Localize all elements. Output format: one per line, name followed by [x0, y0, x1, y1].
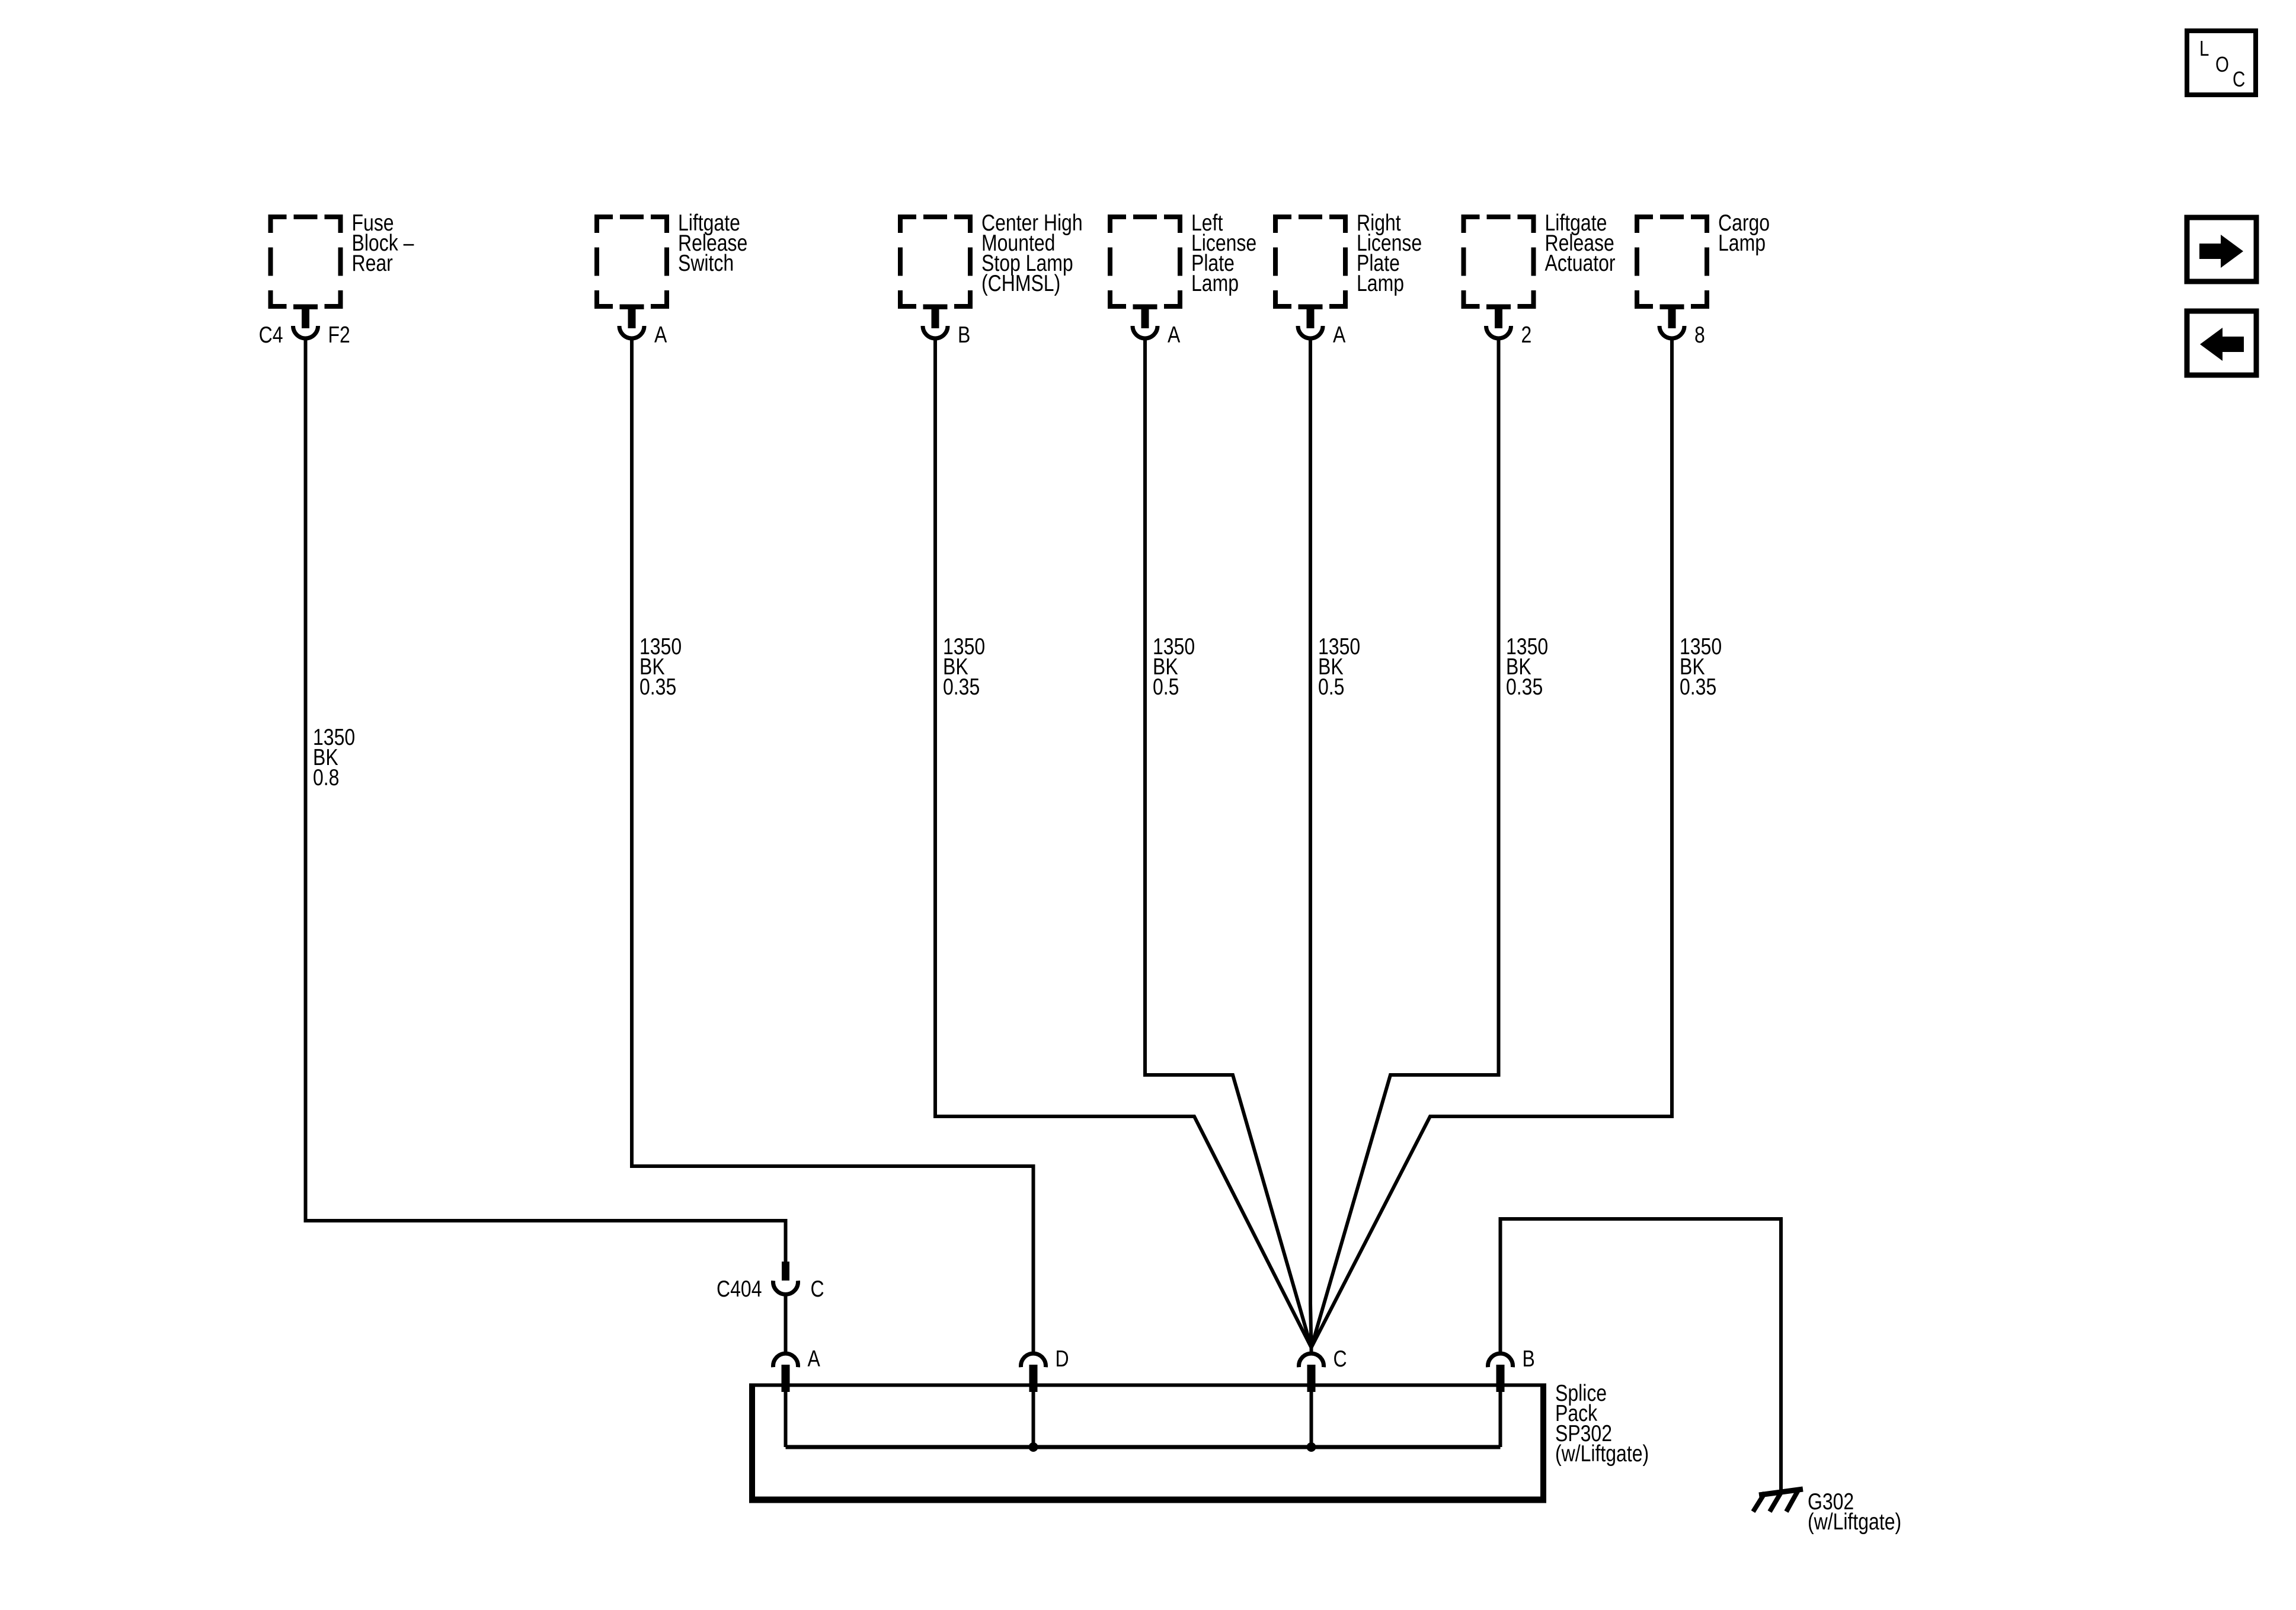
wire label 1350 BK 0.35 — [1506, 633, 1548, 700]
wire label 1350 BK 0.8 — [313, 724, 355, 790]
connector pin B of Center High Mounted Stop Lamp (CHMSL) — [923, 305, 948, 339]
svg-text:0.5: 0.5 — [1318, 674, 1344, 700]
svg-text:Lamp: Lamp — [1718, 230, 1766, 256]
svg-text:0.5: 0.5 — [1153, 674, 1179, 700]
svg-text:0.35: 0.35 — [1506, 674, 1543, 700]
component label: Fuse Block - Rear — [352, 210, 414, 276]
svg-text:(w/Liftgate): (w/Liftgate) — [1555, 1441, 1649, 1467]
svg-text:(CHMSL): (CHMSL) — [981, 270, 1060, 296]
wire: Left License Plate Lamp A to splice pin C (1350 BK 0.5) — [1145, 338, 1312, 1347]
splice pack pin B — [1488, 1353, 1513, 1447]
svg-text:C: C — [2233, 67, 2245, 91]
component box: Fuse Block - Rear — [271, 217, 341, 306]
component label: Left License Plate Lamp — [1191, 210, 1256, 296]
svg-text:A: A — [1333, 322, 1346, 348]
svg-text:D: D — [1056, 1346, 1069, 1372]
svg-text:C404: C404 — [717, 1276, 762, 1302]
component label: Liftgate Release Actuator — [1545, 210, 1616, 276]
connector pin A of Right License Plate Lamp — [1298, 305, 1323, 339]
LOC reference box — [2187, 31, 2256, 95]
splice junction dot at pin C — [1307, 1442, 1316, 1452]
splice junction dot at pin D — [1029, 1442, 1038, 1452]
svg-text:(w/Liftgate): (w/Liftgate) — [1808, 1509, 1901, 1535]
svg-text:0.35: 0.35 — [1680, 674, 1716, 700]
wire label 1350 BK 0.5 — [1153, 633, 1195, 700]
connector pin 8 of Cargo Lamp — [1659, 305, 1684, 339]
left-arrow navigation box — [2187, 311, 2256, 375]
svg-text:B: B — [1523, 1346, 1535, 1372]
svg-text:A: A — [808, 1346, 821, 1372]
svg-text:Switch: Switch — [678, 250, 734, 276]
component label: Right License Plate Lamp — [1357, 210, 1422, 296]
svg-text:8: 8 — [1694, 322, 1705, 348]
splice bus wire inside SP302 — [786, 1445, 1501, 1449]
wire: CHMSL B to splice pin C (1350 BK 0.35) — [935, 338, 1312, 1352]
in-line connector C404 pin C — [773, 1262, 798, 1294]
wire: Liftgate Release Actuator 2 to splice pin C (1350 BK 0.35) — [1312, 338, 1499, 1347]
component label: Center High Mounted Stop Lamp (CHMSL) — [981, 210, 1083, 296]
wire: splice pin B to ground G302 — [1501, 1219, 1782, 1490]
svg-text:C: C — [1334, 1346, 1347, 1372]
component box: Right License Plate Lamp — [1275, 217, 1345, 306]
wire label 1350 BK 0.5 — [1318, 633, 1360, 700]
svg-text:Actuator: Actuator — [1545, 250, 1616, 276]
wire label 1350 BK 0.35 — [943, 633, 985, 700]
component box: Left License Plate Lamp — [1110, 217, 1180, 306]
ground symbol G302 — [1753, 1489, 1803, 1512]
splice pack pin C — [1299, 1353, 1324, 1447]
svg-text:0.35: 0.35 — [943, 674, 980, 700]
wire: Right License Plate Lamp A to splice pin C (1350 BK 0.5) — [1310, 338, 1312, 1347]
component box: Cargo Lamp — [1637, 217, 1707, 306]
component box: Liftgate Release Switch — [597, 217, 667, 306]
component label: Liftgate Release Switch — [678, 210, 747, 276]
wire label 1350 BK 0.35 — [639, 633, 682, 700]
svg-text:A: A — [654, 322, 667, 348]
connector pin 2 of Liftgate Release Actuator — [1486, 305, 1511, 339]
wire: Fuse Block F2 to C404 (1350 BK 0.8) — [306, 338, 786, 1263]
wire: Cargo Lamp 8 to splice pin C (1350 BK 0.35) — [1312, 338, 1673, 1347]
label: Splice Pack SP302 (w/Liftgate) — [1555, 1380, 1649, 1467]
svg-text:O: O — [2215, 52, 2229, 76]
svg-text:F2: F2 — [328, 322, 350, 348]
svg-text:2: 2 — [1521, 322, 1532, 348]
svg-text:C4: C4 — [259, 322, 283, 348]
svg-text:0.35: 0.35 — [639, 674, 676, 700]
splice pack pin A — [773, 1353, 798, 1447]
component label: Cargo Lamp — [1718, 210, 1770, 256]
right-arrow navigation box — [2187, 217, 2256, 281]
svg-text:A: A — [1168, 322, 1181, 348]
wire label 1350 BK 0.35 — [1680, 633, 1722, 700]
svg-text:L: L — [2199, 36, 2209, 60]
component box: Center High Mounted Stop Lamp (CHMSL) — [900, 217, 970, 306]
wire: Liftgate Release Switch A to splice pin D (1350 BK 0.35) — [632, 338, 1034, 1352]
connector pin A of Left License Plate Lamp — [1133, 305, 1157, 339]
svg-text:Lamp: Lamp — [1357, 270, 1404, 296]
svg-text:B: B — [958, 322, 970, 348]
splice pack SP302 outline box — [749, 1384, 1546, 1500]
svg-text:0.8: 0.8 — [313, 764, 339, 790]
wire: C404 to splice pin A — [784, 1294, 788, 1352]
svg-text:Lamp: Lamp — [1191, 270, 1239, 296]
component box: Liftgate Release Actuator — [1464, 217, 1534, 306]
connector pin F2 of Fuse Block - Rear — [293, 305, 318, 339]
connector pin A of Liftgate Release Switch — [619, 305, 644, 339]
svg-text:Rear: Rear — [352, 250, 393, 276]
splice pack pin D — [1021, 1353, 1046, 1447]
svg-text:C: C — [811, 1276, 824, 1302]
ground label G302 (w/Liftgate) — [1808, 1489, 1901, 1535]
